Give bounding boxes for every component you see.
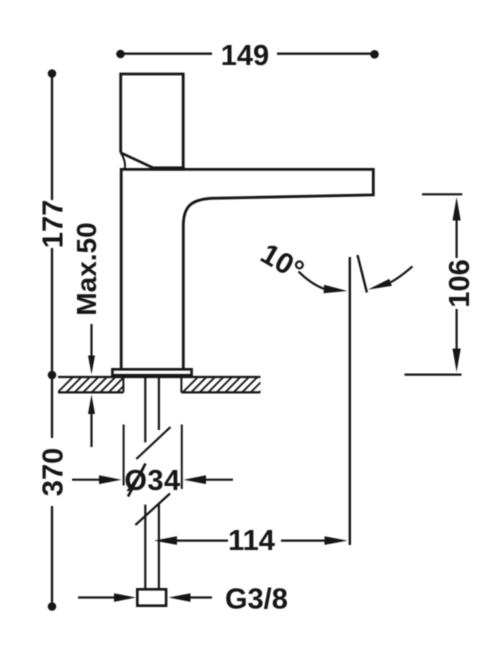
svg-text:Ø34: Ø34 <box>124 465 180 497</box>
svg-text:114: 114 <box>228 525 275 557</box>
svg-text:Max.50: Max.50 <box>71 222 102 315</box>
svg-text:149: 149 <box>221 40 269 72</box>
svg-text:106: 106 <box>444 259 476 307</box>
svg-text:G3/8: G3/8 <box>225 584 288 616</box>
svg-text:177: 177 <box>38 200 70 248</box>
svg-text:370: 370 <box>38 448 70 496</box>
